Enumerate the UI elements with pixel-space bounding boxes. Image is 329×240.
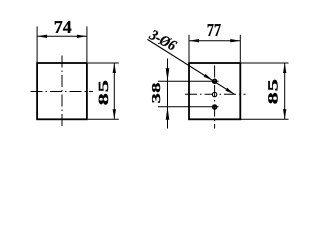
dim 38 dimension line [167,59,169,129]
dim 85 left: extension line bottom [88,118,119,120]
right vertical centerline through holes [214,66,216,129]
middle hole [212,92,216,96]
bottom hole [213,105,217,109]
dim 74 dimension line [37,35,87,37]
dim 38 bottom arrow (outside, pointing up) [166,107,170,120]
svg-text:74: 74 [54,17,72,37]
dim 85 right: arrow down [283,109,286,119]
left square vertical centerline [61,56,63,128]
dim 85 left: extension line top [88,62,119,64]
dim 38 top arrow (outside, pointing down) [166,68,170,81]
dim 85 left: dimension line [113,63,115,119]
svg-text:3-Ø6: 3-Ø6 [146,27,179,55]
dim 74 extension line left [36,26,38,62]
top hole centerline (38 top extension) [158,80,219,82]
dim 85 right: extension line top [241,62,289,64]
leader line 3-D6 [147,39,234,94]
dim 77 extension line right [239,35,241,62]
dim 74 extension line right [86,26,88,62]
right rectangle outline [189,63,240,119]
dim 85 right: arrow up [283,63,286,73]
leader arrowhead at middle centerline [225,88,234,95]
dim 74 arrow right [77,35,87,38]
bottom hole centerline (38 bottom extension) [158,106,219,108]
left square horizontal centerline [31,91,94,93]
top hole [213,79,217,83]
svg-text:77: 77 [207,20,221,40]
dim 85 right: extension line bottom [241,118,289,120]
dim 77 dimension line [189,40,240,42]
middle hole horizontal centerline [185,93,246,95]
svg-text:85: 85 [97,79,112,105]
dim 74 arrow left [37,35,47,38]
dim 85 right: dimension line [284,63,286,119]
svg-text:85: 85 [266,78,281,104]
dim 85 left: arrow down [113,109,116,119]
dim 77 extension line left [188,35,190,62]
leader arrowhead at top hole [204,74,213,81]
svg-text:38: 38 [149,82,163,103]
left square outline [37,63,87,119]
dim 77 arrow left [189,39,199,42]
dim 85 left: arrow up [113,63,116,73]
dim 77 arrow right [230,39,240,42]
